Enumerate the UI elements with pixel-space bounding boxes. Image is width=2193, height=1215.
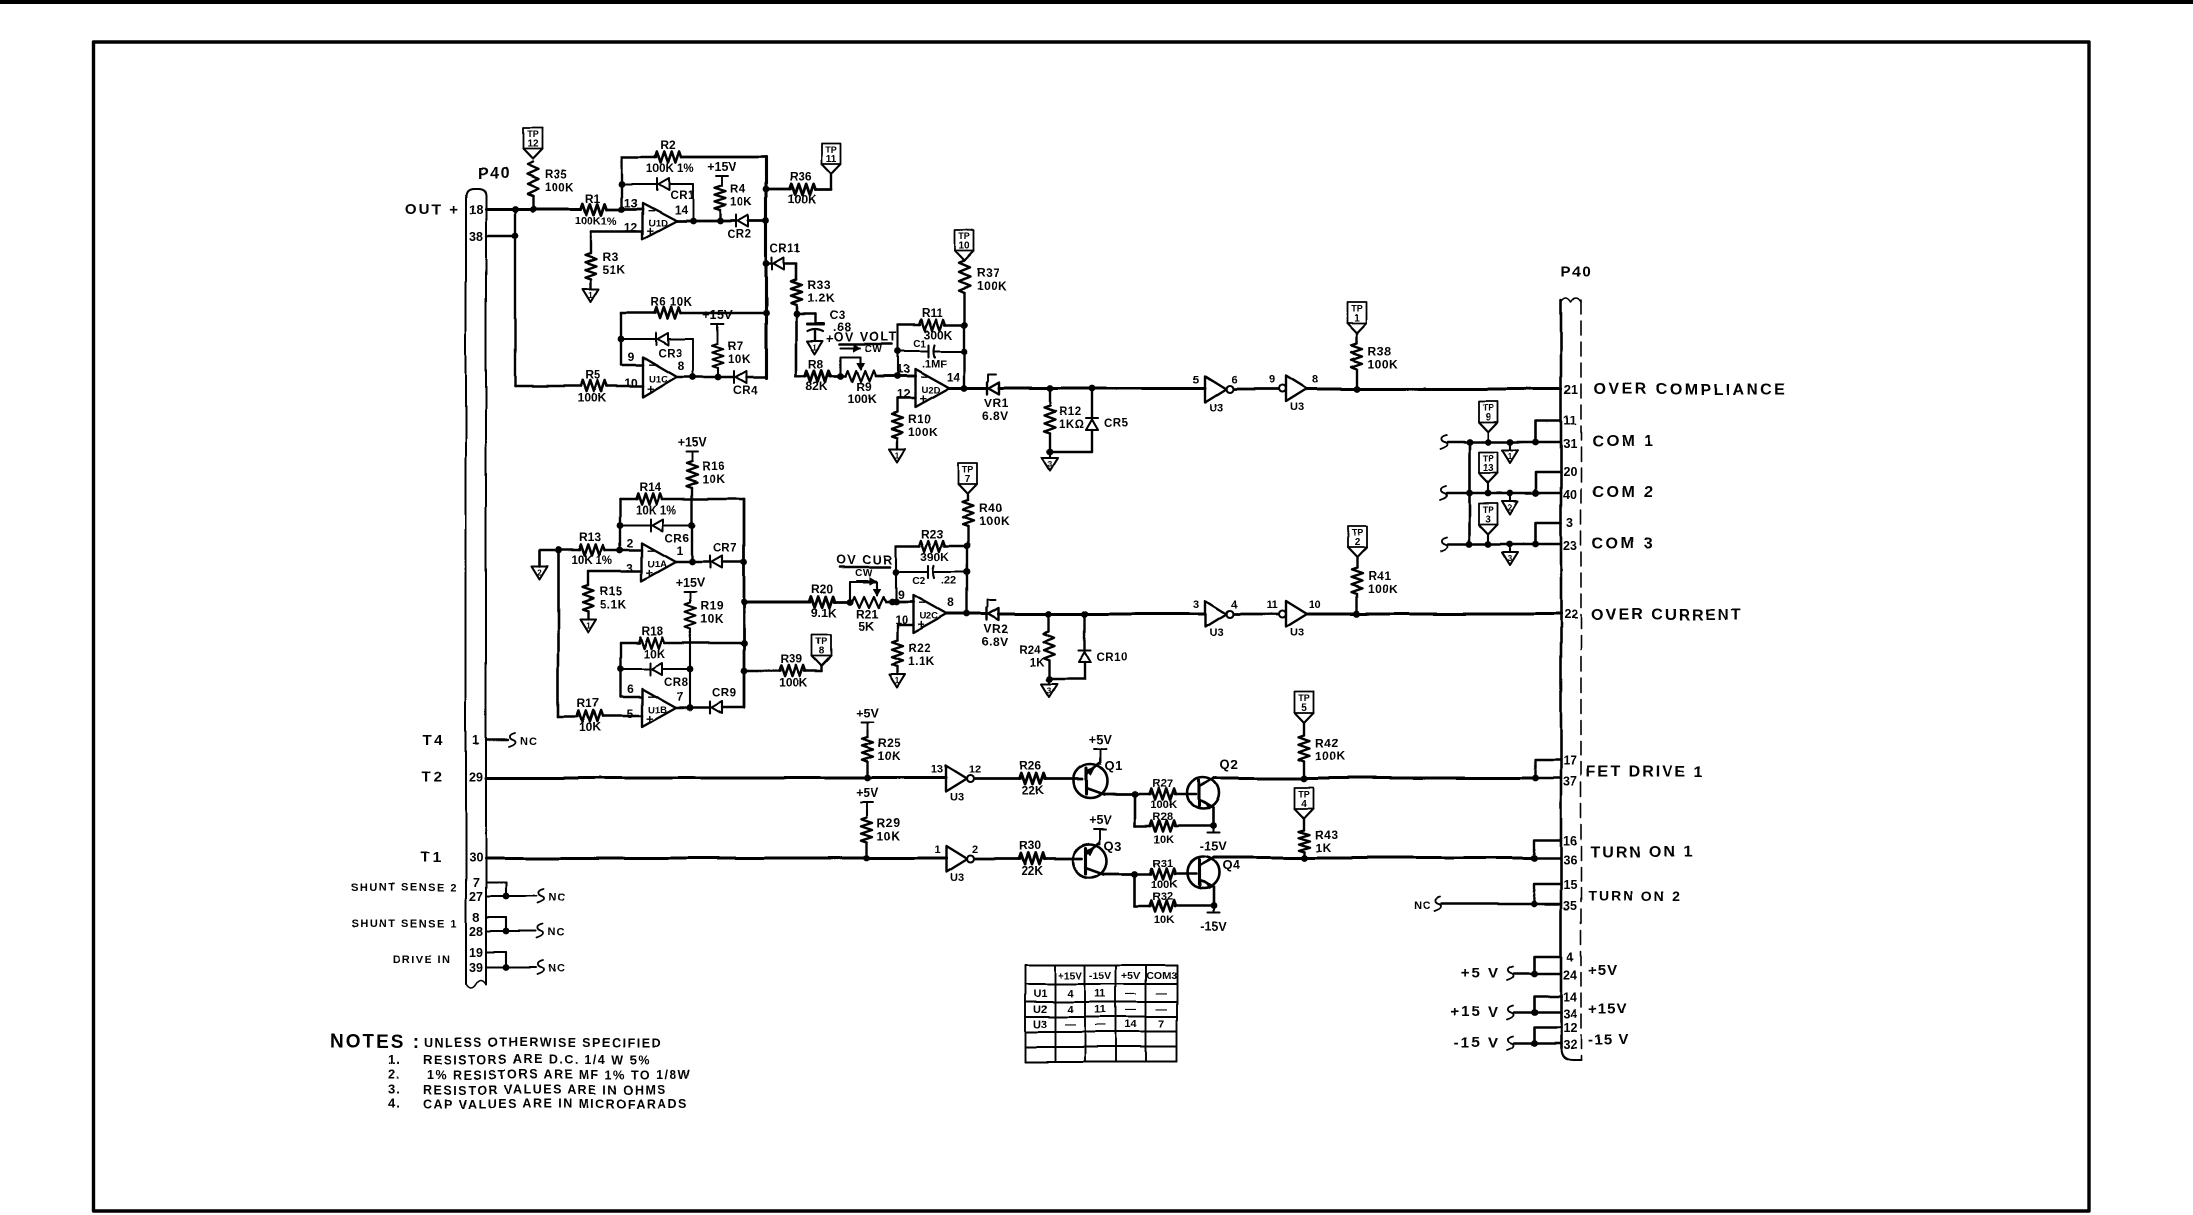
- svg-text:—: —: [1065, 1019, 1076, 1031]
- svg-text:NC: NC: [548, 927, 566, 939]
- svg-text:U1B: U1B: [648, 705, 667, 716]
- svg-text:TP: TP: [1482, 403, 1494, 413]
- svg-text:18: 18: [469, 203, 483, 217]
- svg-text:8: 8: [473, 911, 480, 925]
- svg-text:1% RESISTORS ARE MF 1% TO 1/8W: 1% RESISTORS ARE MF 1% TO 1/8W: [427, 1068, 691, 1082]
- svg-text:CR4: CR4: [733, 385, 758, 397]
- svg-text:VR1: VR1: [984, 396, 1009, 410]
- svg-text:R13: R13: [579, 530, 601, 544]
- svg-text:13: 13: [931, 764, 943, 776]
- svg-text:CR5: CR5: [1104, 418, 1129, 430]
- svg-text:+5V: +5V: [856, 706, 879, 720]
- svg-text:U1C: U1C: [649, 374, 668, 385]
- svg-text:10: 10: [958, 241, 970, 252]
- svg-text:100K1%: 100K1%: [575, 215, 617, 227]
- svg-text:CR8: CR8: [664, 677, 689, 689]
- svg-text:COM3: COM3: [1146, 970, 1176, 982]
- svg-text:R29: R29: [877, 816, 901, 830]
- svg-text:Q2: Q2: [1220, 757, 1238, 772]
- svg-text:R3: R3: [603, 250, 619, 264]
- svg-text:—: —: [1126, 1004, 1137, 1016]
- svg-text:+5V: +5V: [1588, 962, 1618, 979]
- svg-text:−: −: [920, 369, 928, 384]
- svg-text:100K: 100K: [1368, 582, 1399, 596]
- svg-text:37: 37: [1563, 775, 1577, 789]
- svg-text:R2: R2: [660, 138, 676, 152]
- svg-text:1: 1: [895, 451, 900, 460]
- svg-text:6: 6: [627, 682, 634, 696]
- svg-text:4: 4: [1231, 599, 1238, 611]
- svg-text:100K 1%: 100K 1%: [646, 163, 693, 175]
- svg-text:12: 12: [527, 139, 539, 150]
- svg-text:14: 14: [946, 370, 960, 384]
- svg-text:R41: R41: [1368, 569, 1392, 583]
- svg-text:FET DRIVE 1: FET DRIVE 1: [1586, 764, 1705, 781]
- svg-text:R7: R7: [728, 341, 744, 353]
- svg-text:32: 32: [1563, 1038, 1577, 1052]
- svg-text:12: 12: [1563, 1021, 1577, 1035]
- svg-text:10K 1%: 10K 1%: [572, 555, 613, 567]
- svg-text:TURN ON 1: TURN ON 1: [1590, 844, 1694, 861]
- svg-text:35: 35: [1563, 899, 1577, 913]
- svg-text:3: 3: [1508, 554, 1513, 563]
- svg-text:15: 15: [1563, 878, 1577, 892]
- svg-text:28: 28: [469, 925, 483, 939]
- svg-text:+5 V: +5 V: [1461, 965, 1500, 982]
- svg-text:100K: 100K: [1151, 799, 1177, 811]
- svg-text:9: 9: [1485, 412, 1491, 423]
- svg-text:R39: R39: [781, 652, 803, 666]
- svg-text:1: 1: [1508, 452, 1513, 461]
- svg-text:−: −: [647, 543, 655, 558]
- svg-text:SHUNT SENSE 2: SHUNT SENSE 2: [351, 882, 458, 894]
- svg-text:R1: R1: [585, 191, 601, 205]
- svg-text:U2: U2: [1033, 1004, 1047, 1016]
- svg-text:4: 4: [1067, 988, 1074, 1000]
- svg-text:OV CUR: OV CUR: [836, 553, 894, 567]
- svg-text:14: 14: [674, 203, 688, 217]
- svg-text:R18: R18: [641, 624, 663, 638]
- svg-text:10K: 10K: [700, 612, 724, 626]
- svg-text:1: 1: [589, 291, 594, 300]
- svg-text:7: 7: [965, 474, 971, 485]
- svg-text:+15V: +15V: [675, 576, 705, 590]
- svg-text:R25: R25: [877, 736, 901, 750]
- svg-text:11: 11: [826, 154, 837, 165]
- svg-text:-15V: -15V: [1089, 970, 1111, 982]
- svg-text:RESISTORS ARE D.C. 1/4 W 5%: RESISTORS ARE D.C. 1/4 W 5%: [423, 1053, 651, 1067]
- svg-text:6: 6: [1231, 374, 1237, 386]
- svg-text:NC: NC: [548, 963, 566, 975]
- svg-text:R35: R35: [545, 169, 568, 181]
- svg-text:TP: TP: [816, 637, 828, 647]
- svg-text:23: 23: [1563, 539, 1577, 553]
- svg-text:—: —: [1156, 1004, 1167, 1016]
- svg-text:12: 12: [969, 764, 981, 776]
- svg-text:NC: NC: [520, 736, 538, 748]
- svg-text:U3: U3: [1209, 627, 1223, 639]
- svg-text:1: 1: [677, 544, 684, 558]
- svg-text:100K: 100K: [1315, 749, 1346, 763]
- svg-text:R32: R32: [1153, 891, 1173, 903]
- svg-text:CR10: CR10: [1097, 652, 1128, 664]
- svg-text:4.: 4.: [388, 1096, 401, 1111]
- svg-text:30: 30: [469, 851, 483, 865]
- svg-text:27: 27: [469, 890, 483, 904]
- svg-text:CR7: CR7: [713, 543, 738, 555]
- svg-text:CR1: CR1: [670, 190, 695, 202]
- svg-text:+15V: +15V: [703, 308, 733, 322]
- svg-text:1: 1: [895, 676, 900, 685]
- svg-text:U3: U3: [950, 872, 964, 884]
- svg-text:100K: 100K: [979, 514, 1010, 528]
- svg-text:300K: 300K: [924, 328, 953, 342]
- svg-text:3: 3: [1567, 516, 1574, 530]
- svg-text:6.8V: 6.8V: [982, 409, 1009, 423]
- svg-text:17: 17: [1563, 754, 1577, 768]
- svg-text:3: 3: [1047, 686, 1052, 695]
- svg-text:21: 21: [1564, 383, 1578, 397]
- svg-text:R23: R23: [921, 527, 943, 541]
- svg-text:7: 7: [677, 690, 684, 704]
- svg-text:2: 2: [1354, 538, 1360, 549]
- svg-text:2: 2: [1508, 503, 1513, 512]
- svg-text:2.: 2.: [388, 1067, 401, 1082]
- svg-text:11: 11: [1095, 1004, 1107, 1016]
- svg-text:1.1K: 1.1K: [908, 654, 935, 668]
- svg-text:14: 14: [1563, 990, 1577, 1004]
- svg-text:51K: 51K: [603, 263, 627, 277]
- svg-text:9.1K: 9.1K: [811, 606, 837, 620]
- svg-text:10K: 10K: [1154, 834, 1174, 846]
- svg-text:5: 5: [1193, 374, 1199, 386]
- svg-text:24: 24: [1563, 968, 1577, 982]
- svg-text:-15 V: -15 V: [1588, 1032, 1629, 1049]
- svg-text:100K: 100K: [976, 279, 1007, 293]
- svg-text:CR11: CR11: [770, 243, 801, 255]
- svg-text:U2D: U2D: [921, 385, 940, 396]
- svg-text:−: −: [648, 203, 656, 218]
- svg-text:10K: 10K: [730, 197, 753, 209]
- svg-text:100K: 100K: [1151, 879, 1177, 891]
- svg-text:3: 3: [1485, 514, 1491, 525]
- svg-text:4: 4: [1067, 1004, 1074, 1016]
- svg-text:10K: 10K: [1154, 914, 1174, 926]
- svg-text:OUT +: OUT +: [405, 201, 460, 218]
- svg-text:R6 10K: R6 10K: [651, 297, 693, 309]
- svg-text:1: 1: [586, 621, 591, 630]
- svg-text:COM 2: COM 2: [1592, 484, 1655, 501]
- svg-text:10K 1%: 10K 1%: [636, 505, 677, 517]
- svg-text:NOTES :: NOTES :: [330, 1032, 421, 1053]
- svg-text:5: 5: [627, 707, 634, 721]
- svg-text:R15: R15: [600, 584, 624, 598]
- svg-text:U2C: U2C: [919, 611, 938, 622]
- svg-text:R33: R33: [807, 278, 831, 292]
- svg-text:13: 13: [624, 196, 638, 210]
- svg-text:—: —: [1156, 988, 1167, 1000]
- svg-text:R12: R12: [1059, 406, 1082, 418]
- svg-text:+15 V: +15 V: [1450, 1004, 1500, 1021]
- svg-text:22K: 22K: [1021, 784, 1043, 798]
- svg-text:1: 1: [934, 844, 940, 856]
- svg-text:VR2: VR2: [984, 622, 1009, 636]
- svg-text:T4: T4: [422, 732, 446, 749]
- svg-text:CR9: CR9: [712, 688, 737, 700]
- svg-text:NC: NC: [1414, 900, 1432, 912]
- svg-text:R28: R28: [1153, 811, 1173, 823]
- svg-text:R16: R16: [702, 459, 726, 473]
- svg-text:C2: C2: [912, 575, 926, 587]
- svg-text:SHUNT SENSE 1: SHUNT SENSE 1: [351, 918, 458, 930]
- svg-text:10K: 10K: [579, 720, 601, 734]
- svg-text:TP: TP: [958, 232, 970, 242]
- svg-text:−: −: [918, 595, 926, 610]
- svg-text:22K: 22K: [1021, 864, 1043, 878]
- svg-text:R37: R37: [976, 266, 1000, 280]
- svg-text:TP: TP: [1482, 454, 1494, 464]
- svg-text:.22: .22: [941, 575, 956, 587]
- svg-text:TP: TP: [1298, 693, 1310, 703]
- svg-text:R22: R22: [908, 641, 932, 655]
- svg-text:10K: 10K: [877, 749, 901, 763]
- svg-text:8: 8: [948, 596, 955, 610]
- svg-text:31: 31: [1563, 437, 1577, 451]
- svg-text:100K: 100K: [578, 391, 607, 405]
- svg-text:1: 1: [473, 734, 480, 748]
- svg-text:4: 4: [1301, 798, 1307, 809]
- svg-text:+15V: +15V: [677, 436, 707, 450]
- svg-text:CW: CW: [865, 344, 883, 355]
- svg-text:R27: R27: [1153, 778, 1173, 790]
- svg-text:R36: R36: [789, 170, 811, 184]
- svg-text:100K: 100K: [780, 676, 809, 690]
- svg-text:—: —: [1126, 988, 1137, 1000]
- svg-text:T2: T2: [421, 769, 445, 786]
- svg-text:22: 22: [1564, 608, 1578, 622]
- svg-text:OV VOLT: OV VOLT: [834, 330, 898, 344]
- svg-text:COM 1: COM 1: [1592, 433, 1655, 450]
- svg-text:2: 2: [537, 568, 542, 577]
- svg-text:40: 40: [1563, 488, 1577, 502]
- svg-text:29: 29: [469, 771, 483, 785]
- svg-text:P40: P40: [478, 165, 511, 182]
- svg-text:9: 9: [628, 350, 635, 364]
- svg-text:10: 10: [1309, 599, 1321, 611]
- svg-text:+5V: +5V: [1089, 813, 1112, 827]
- svg-text:R38: R38: [1368, 344, 1392, 358]
- svg-text:R40: R40: [979, 501, 1003, 515]
- svg-text:U3: U3: [1033, 1019, 1047, 1031]
- svg-text:OVER CURRENT: OVER CURRENT: [1591, 607, 1743, 624]
- svg-text:3: 3: [1048, 460, 1053, 469]
- svg-text:R30: R30: [1019, 839, 1041, 853]
- svg-text:5: 5: [1301, 702, 1307, 713]
- svg-text:11: 11: [1095, 988, 1107, 1000]
- svg-text:R43: R43: [1315, 828, 1339, 842]
- svg-text:−: −: [647, 689, 655, 704]
- svg-text:−: −: [648, 357, 656, 372]
- svg-text:10K: 10K: [877, 829, 901, 843]
- svg-text:TP: TP: [1351, 304, 1363, 314]
- svg-text:NC: NC: [548, 892, 566, 904]
- svg-text:1: 1: [813, 343, 818, 352]
- svg-text:11: 11: [1563, 414, 1576, 428]
- svg-text:TURN ON 2: TURN ON 2: [1588, 888, 1681, 904]
- svg-text:1K: 1K: [1029, 657, 1044, 669]
- svg-text:13: 13: [896, 362, 910, 376]
- svg-text:C1: C1: [913, 339, 926, 350]
- svg-text:100K: 100K: [1368, 357, 1399, 371]
- svg-text:9: 9: [898, 588, 905, 602]
- svg-text:5K: 5K: [858, 619, 874, 633]
- svg-text:R31: R31: [1153, 858, 1173, 870]
- svg-text:19: 19: [469, 946, 483, 960]
- svg-text:—: —: [1095, 1019, 1106, 1031]
- svg-text:R4: R4: [730, 184, 746, 196]
- svg-text:100K: 100K: [848, 392, 877, 406]
- svg-text:U3: U3: [1290, 627, 1304, 639]
- svg-text:R5: R5: [585, 368, 601, 382]
- svg-text:CR2: CR2: [727, 229, 752, 241]
- svg-text:-15 V: -15 V: [1454, 1035, 1500, 1052]
- svg-text:R11: R11: [921, 306, 943, 320]
- svg-text:100K: 100K: [545, 182, 575, 194]
- svg-text:8: 8: [1312, 374, 1318, 386]
- svg-text:1: 1: [1354, 313, 1360, 324]
- svg-text:+5V: +5V: [856, 786, 879, 800]
- svg-text:OVER COMPLIANCE: OVER COMPLIANCE: [1593, 381, 1788, 398]
- svg-text:3.: 3.: [388, 1082, 401, 1097]
- svg-text:14: 14: [1125, 1019, 1138, 1031]
- svg-text:2: 2: [627, 536, 634, 550]
- svg-text:P40: P40: [1561, 263, 1592, 280]
- svg-text:100K: 100K: [908, 425, 939, 439]
- svg-text:TP: TP: [527, 130, 539, 140]
- svg-text:+15V: +15V: [1588, 1001, 1627, 1018]
- svg-text:38: 38: [469, 230, 483, 244]
- svg-text:390K: 390K: [921, 550, 950, 564]
- svg-text:TP: TP: [962, 465, 974, 475]
- svg-text:RESISTOR VALUES ARE IN OHMS: RESISTOR VALUES ARE IN OHMS: [423, 1083, 667, 1097]
- svg-text:R20: R20: [811, 582, 833, 596]
- svg-text:13: 13: [1482, 463, 1494, 474]
- svg-text:4: 4: [1567, 950, 1574, 964]
- svg-text:100K: 100K: [788, 193, 817, 207]
- svg-text:Q1: Q1: [1104, 758, 1122, 773]
- svg-text:11: 11: [1266, 599, 1278, 611]
- svg-text:TP: TP: [825, 145, 837, 155]
- svg-text:1.: 1.: [388, 1052, 401, 1067]
- svg-text:R8: R8: [808, 357, 824, 371]
- svg-text:1KΩ: 1KΩ: [1059, 419, 1084, 431]
- svg-text:Q3: Q3: [1104, 838, 1122, 853]
- svg-text:+15V: +15V: [1058, 970, 1083, 982]
- svg-text:82K: 82K: [806, 379, 828, 393]
- svg-text:7: 7: [1158, 1019, 1164, 1031]
- svg-text:R10: R10: [908, 412, 932, 426]
- svg-text:7: 7: [473, 876, 480, 890]
- svg-text:COM 3: COM 3: [1592, 535, 1655, 552]
- svg-text:U3: U3: [950, 792, 964, 804]
- svg-text:CAP VALUES ARE IN MICROFARADS: CAP VALUES ARE IN MICROFARADS: [423, 1097, 688, 1111]
- svg-text:1K: 1K: [1315, 841, 1331, 855]
- svg-text:R17: R17: [577, 696, 599, 710]
- svg-text:R14: R14: [639, 480, 661, 494]
- svg-text:-15V: -15V: [1200, 840, 1227, 854]
- svg-text:5.1K: 5.1K: [600, 597, 627, 611]
- svg-text:8: 8: [678, 359, 685, 373]
- svg-text:U3: U3: [1290, 402, 1304, 414]
- svg-text:U3: U3: [1209, 402, 1223, 414]
- svg-text:10K: 10K: [702, 472, 726, 486]
- svg-text:R24: R24: [1019, 644, 1041, 656]
- svg-text:+5V: +5V: [1122, 970, 1141, 982]
- svg-text:U1D: U1D: [649, 218, 668, 229]
- svg-text:TP: TP: [1482, 505, 1494, 515]
- svg-text:10K: 10K: [728, 354, 751, 366]
- svg-text:-15V: -15V: [1200, 920, 1227, 934]
- svg-text:R42: R42: [1315, 736, 1339, 750]
- svg-text:10: 10: [624, 376, 638, 390]
- svg-text:Q4: Q4: [1222, 858, 1241, 873]
- svg-text:2: 2: [972, 844, 978, 856]
- svg-text:3: 3: [627, 561, 634, 575]
- svg-text:6.8V: 6.8V: [982, 635, 1009, 649]
- svg-text:3: 3: [1193, 599, 1199, 611]
- svg-text:36: 36: [1563, 853, 1577, 867]
- svg-text:8: 8: [819, 646, 825, 657]
- svg-text:DRIVE IN: DRIVE IN: [392, 954, 452, 966]
- svg-text:16: 16: [1563, 834, 1577, 848]
- svg-text:T1: T1: [420, 849, 444, 866]
- svg-text:34: 34: [1563, 1007, 1577, 1021]
- svg-text:U1: U1: [1033, 988, 1047, 1000]
- svg-text:9: 9: [1269, 374, 1275, 386]
- svg-text:+5V: +5V: [1089, 733, 1112, 747]
- svg-text:1.2K: 1.2K: [807, 291, 834, 305]
- svg-text:20: 20: [1563, 465, 1577, 479]
- svg-text:TP: TP: [1351, 529, 1363, 539]
- svg-text:39: 39: [469, 961, 483, 975]
- svg-text:U1A: U1A: [648, 559, 667, 570]
- svg-text:UNLESS OTHERWISE SPECIFIED: UNLESS OTHERWISE SPECIFIED: [424, 1036, 662, 1050]
- svg-text:+15V: +15V: [707, 160, 737, 174]
- svg-text:R26: R26: [1019, 759, 1041, 773]
- svg-text:R19: R19: [700, 599, 724, 613]
- svg-text:10K: 10K: [643, 647, 665, 661]
- svg-text:TP: TP: [1298, 789, 1310, 799]
